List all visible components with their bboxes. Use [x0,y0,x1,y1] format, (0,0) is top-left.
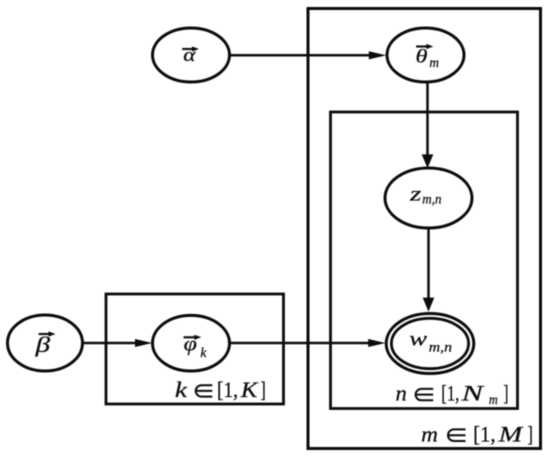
arrow phi to w [230,342,371,345]
svg-text:z: z [409,181,422,205]
node beta (ellipse) [8,315,83,371]
label w_mn [409,326,452,355]
svg-text:n: n [396,381,407,406]
label phi_k vector [184,332,208,361]
svg-text:w: w [409,326,428,350]
arrow beta to phi [83,342,138,345]
plate K (k in [1,K]) [106,294,284,404]
svg-text:m: m [489,393,498,408]
arrow z to w [427,228,430,299]
label theta_m vector [416,44,440,71]
element-of symbol [448,429,466,441]
element-of symbol [196,385,213,396]
arrow theta to z [426,82,429,156]
svg-text:m: m [421,421,438,446]
svg-text:m: m [429,56,439,71]
svg-text:[1,: [1, [473,421,496,446]
svg-text:K: K [240,377,259,402]
svg-text:N: N [460,381,485,406]
arrow alpha to theta [229,54,370,57]
node z_mn (ellipse) [385,168,472,228]
svg-text:]: ] [261,377,266,402]
node w_mn (observed, double ellipse) [386,314,474,374]
label beta vector [34,331,55,357]
svg-text:k: k [200,346,207,361]
label alpha vector [182,45,199,66]
node theta_m (ellipse) [387,28,464,82]
svg-text:[1,: [1, [441,381,459,406]
svg-text:M: M [497,421,524,446]
node phi_k (ellipse) [153,315,230,371]
plate label n in [1,N_m] [396,381,509,408]
svg-text:θ: θ [416,46,428,67]
element-of symbol [416,389,434,400]
svg-text:k: k [175,377,189,402]
plate label m in [1,M] [421,421,533,446]
plate N (inner, n in [1,N_m]) [331,112,518,409]
svg-text:β: β [34,332,50,357]
svg-text:[1,: [1, [217,377,238,402]
plate M (outer, m in [1,M]) [308,9,541,449]
node alpha (ellipse) [153,28,230,82]
svg-text:m,n: m,n [429,341,452,356]
label z_mn [409,181,442,207]
plate label k in [1,K] [175,377,266,402]
svg-text:]: ] [528,421,533,446]
svg-text:]: ] [503,381,508,406]
svg-text:m,n: m,n [422,192,441,207]
